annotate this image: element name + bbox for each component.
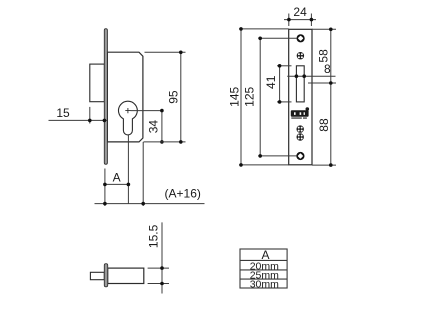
dim 58/88 top extension [312,28,336,30]
dim 15 extension line [89,107,91,124]
logo block [291,107,309,118]
dim 95 arrows [179,51,183,55]
dim 24 left extension tick [288,14,290,27]
svg-text:41: 41 [264,75,278,89]
svg-text:58: 58 [316,49,330,63]
dim 34 leader from cylinder [130,110,162,112]
bolt flange [104,264,107,287]
svg-text:30mm: 30mm [250,279,279,291]
dim 125 top extension [258,37,297,39]
table frame [240,249,287,288]
dim 24 right extension tick [310,14,312,27]
svg-text:125: 125 [243,86,257,106]
faceplate front [289,29,312,165]
euro cylinder hole [118,101,137,135]
dim 24 line [284,19,316,21]
dim 15.5 arrows [160,266,164,270]
dim (A+16) line [95,203,205,205]
dim (A+16) body-edge extension [142,142,144,206]
dim 125 line [259,38,261,156]
dim 8 line [287,75,335,77]
dim 15.5 top tick [148,267,169,269]
svg-text:15: 15 [56,106,70,120]
svg-text:34: 34 [147,120,161,134]
bottom fixing hole [296,152,304,160]
dim 41 line [279,66,281,102]
dim 145 line [240,29,242,165]
lock body [107,52,142,142]
latch slot [296,66,304,102]
dim 145 top extension [239,28,289,30]
svg-text:88: 88 [317,118,331,132]
dim 125 bottom extension [258,155,296,157]
dim 95 bottom extension [144,141,186,143]
dim 15.5 line [161,222,163,293]
svg-text:145: 145 [227,86,241,106]
bolt body [108,268,144,283]
dim A arrows [103,183,107,187]
dim 41 bottom extension [277,101,292,103]
svg-text:24: 24 [293,5,307,19]
dim 41 top extension [277,65,292,67]
dim 34 arrows [160,109,164,113]
dim 15 line [49,119,108,121]
dim 8 arrows [295,74,299,78]
dim 95 line [180,52,182,142]
dim 24 arrows [287,18,291,22]
dim 125 arrows [258,37,262,41]
dim 58/88 line [330,29,332,165]
middle phillips screw 1 [297,125,304,132]
bolt tip [90,272,104,279]
dim 41 arrows [278,64,282,68]
dim 15.5 bottom tick [148,283,169,285]
top phillips screw [297,52,304,59]
svg-text:8: 8 [324,62,331,76]
svg-text:15.5: 15.5 [147,224,161,248]
dim 145 arrows [239,27,243,31]
dim (A+16) arrows [103,202,107,206]
svg-text:(A+16): (A+16) [165,187,201,201]
svg-text:A: A [113,171,121,185]
dim 34 line [161,111,163,142]
cylinder centre line [127,135,129,204]
dim 145 bottom extension [239,164,289,166]
cylinder cross mark [125,108,130,113]
dim A left extension [104,169,106,207]
dim 58/88 arrows [329,28,333,32]
top fixing hole [297,34,305,42]
dim 95 top extension [145,51,186,53]
dim 15 arrows [88,119,92,123]
dim 58/88 bottom extension [312,164,336,166]
latch bolt (side view) [90,64,105,102]
svg-text:95: 95 [167,90,181,104]
middle phillips screw 2 [297,133,304,140]
dim 58/88 middle extension [308,82,336,84]
faceplate bar [104,29,107,165]
dim A line [105,183,128,185]
